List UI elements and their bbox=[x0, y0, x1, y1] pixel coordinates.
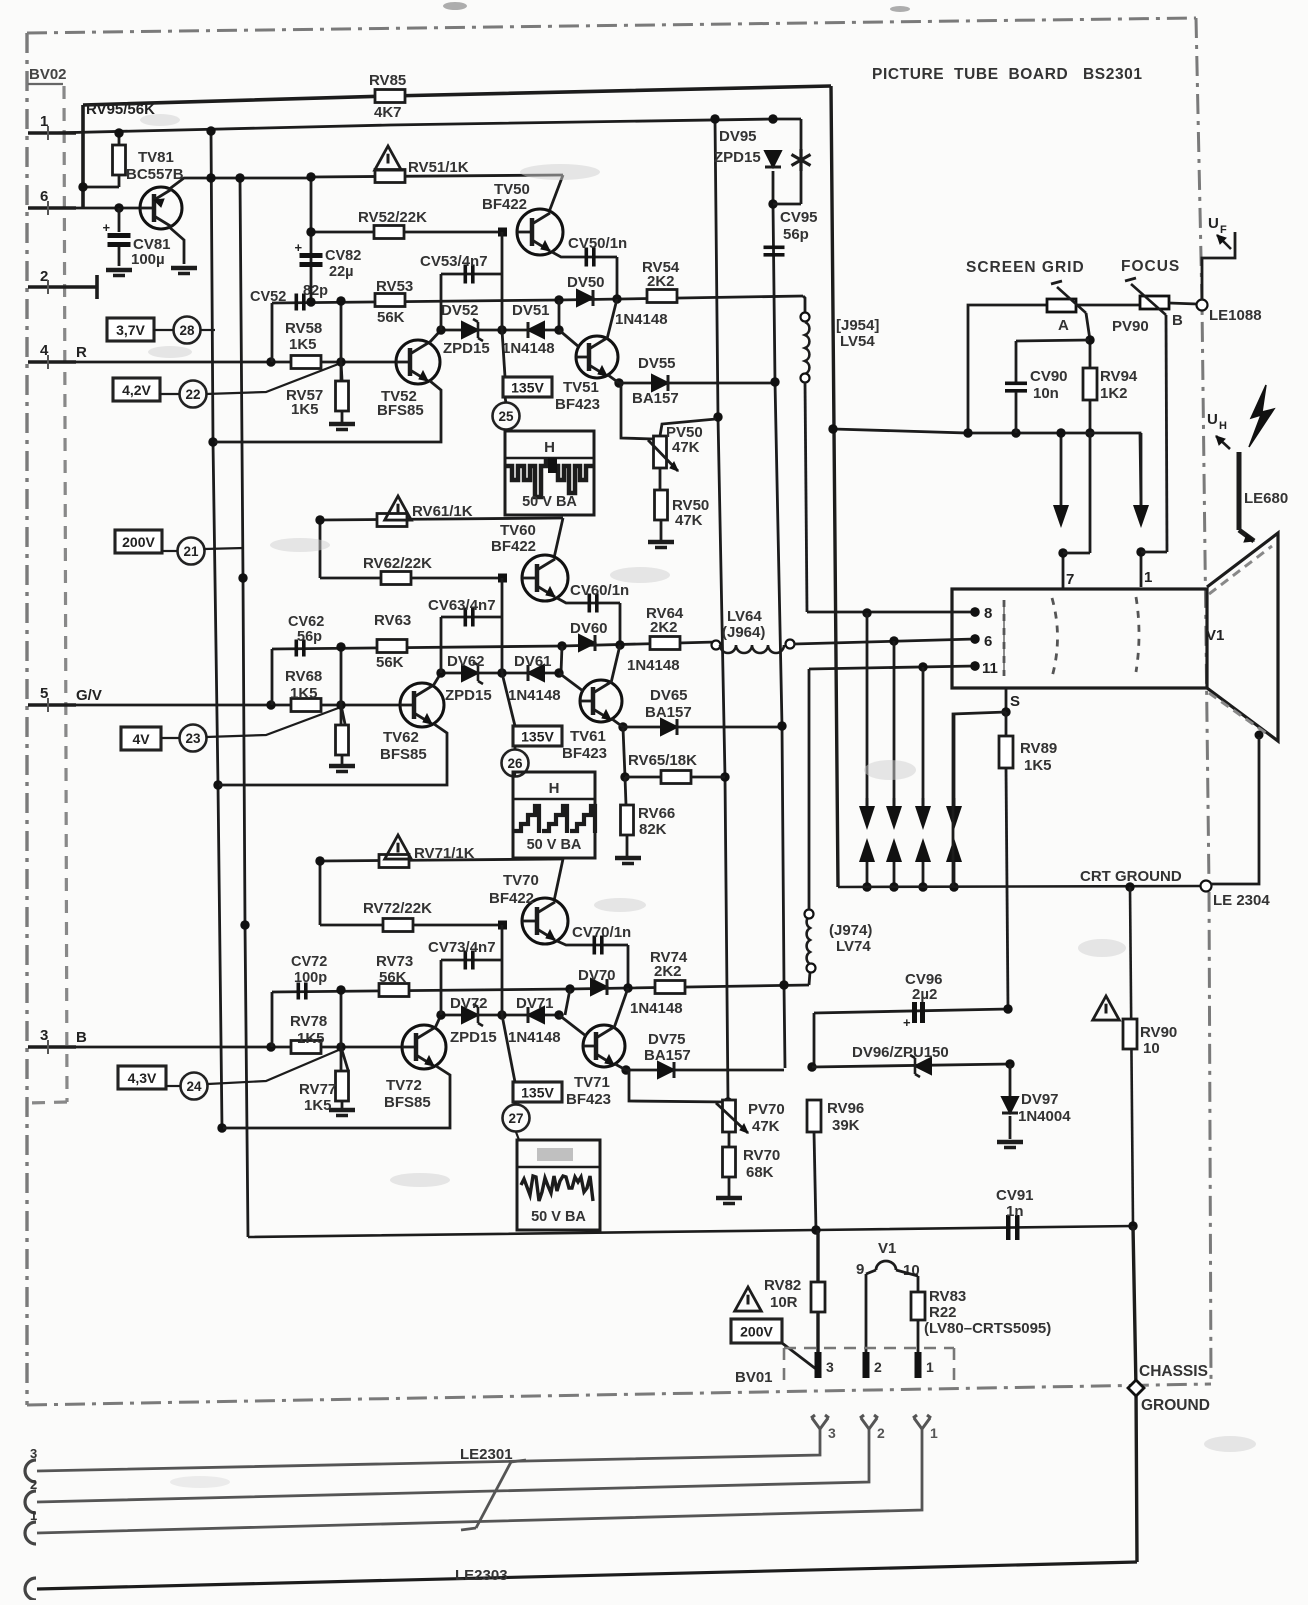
svg-text:PICTURE TUBE BOARD BS2301: PICTURE TUBE BOARD BS2301 bbox=[872, 66, 1143, 83]
svg-text:RV62/22K: RV62/22K bbox=[363, 555, 432, 572]
svg-text:DV51: DV51 bbox=[512, 302, 550, 319]
svg-text:LV64: LV64 bbox=[727, 608, 762, 625]
svg-text:200V: 200V bbox=[122, 534, 155, 550]
svg-text:DV52: DV52 bbox=[441, 302, 479, 319]
svg-text:56K: 56K bbox=[376, 654, 404, 671]
svg-text:56K: 56K bbox=[377, 309, 405, 326]
svg-text:39K: 39K bbox=[832, 1117, 860, 1134]
svg-text:2K2: 2K2 bbox=[650, 619, 678, 636]
svg-text:CV73/4n7: CV73/4n7 bbox=[428, 939, 496, 956]
svg-text:LE2301: LE2301 bbox=[460, 1446, 513, 1463]
svg-text:1N4148: 1N4148 bbox=[508, 687, 561, 704]
svg-text:CV90: CV90 bbox=[1030, 368, 1068, 385]
svg-text:RV94: RV94 bbox=[1100, 368, 1138, 385]
svg-text:S: S bbox=[1010, 693, 1020, 710]
svg-text:22: 22 bbox=[185, 387, 200, 402]
svg-text:3: 3 bbox=[826, 1359, 834, 1375]
svg-text:RV73: RV73 bbox=[376, 953, 413, 970]
svg-text:82K: 82K bbox=[639, 821, 667, 838]
svg-text:RV90: RV90 bbox=[1140, 1024, 1177, 1041]
svg-text:DV62: DV62 bbox=[447, 653, 485, 670]
svg-text:DV65: DV65 bbox=[650, 687, 688, 704]
svg-text:V1: V1 bbox=[1206, 627, 1224, 644]
svg-text:BA157: BA157 bbox=[644, 1047, 691, 1064]
svg-text:LV54: LV54 bbox=[840, 333, 875, 350]
svg-text:4K7: 4K7 bbox=[374, 104, 402, 121]
svg-text:RV68: RV68 bbox=[285, 668, 322, 685]
svg-text:B: B bbox=[76, 1029, 87, 1046]
svg-text:BV02: BV02 bbox=[29, 66, 67, 83]
svg-text:1N4148: 1N4148 bbox=[627, 657, 680, 674]
svg-text:RV96: RV96 bbox=[827, 1100, 864, 1117]
svg-text:RV83: RV83 bbox=[929, 1288, 966, 1305]
svg-text:10R: 10R bbox=[770, 1294, 798, 1311]
svg-text:RV65/18K: RV65/18K bbox=[628, 752, 697, 769]
svg-text:TV60: TV60 bbox=[500, 522, 536, 539]
svg-text:RV82: RV82 bbox=[764, 1277, 801, 1294]
svg-text:TV81: TV81 bbox=[138, 149, 174, 166]
svg-text:U: U bbox=[1207, 411, 1218, 428]
svg-text:2µ2: 2µ2 bbox=[912, 986, 937, 1003]
svg-text:ZPD15: ZPD15 bbox=[450, 1029, 497, 1046]
svg-text:DV95: DV95 bbox=[719, 128, 757, 145]
svg-text:RV51/1K: RV51/1K bbox=[408, 159, 469, 176]
svg-text:1: 1 bbox=[30, 1508, 37, 1523]
svg-text:135V: 135V bbox=[511, 380, 544, 396]
svg-text:RV52/22K: RV52/22K bbox=[358, 209, 427, 226]
svg-text:DV50: DV50 bbox=[567, 274, 605, 291]
svg-text:BA157: BA157 bbox=[645, 704, 692, 721]
svg-text:56K: 56K bbox=[379, 969, 407, 986]
svg-text:1: 1 bbox=[930, 1425, 938, 1441]
svg-text:RV85: RV85 bbox=[369, 72, 406, 89]
svg-text:4V: 4V bbox=[132, 731, 150, 747]
svg-text:BF422: BF422 bbox=[489, 890, 534, 907]
svg-text:47K: 47K bbox=[672, 439, 700, 456]
svg-text:25: 25 bbox=[498, 409, 514, 424]
svg-text:[J954]: [J954] bbox=[836, 317, 879, 334]
svg-text:CV60/1n: CV60/1n bbox=[570, 582, 629, 599]
svg-text:ZPD15: ZPD15 bbox=[445, 687, 492, 704]
svg-text:CV63/4n7: CV63/4n7 bbox=[428, 597, 496, 614]
svg-text:LE 2304: LE 2304 bbox=[1213, 892, 1270, 909]
svg-text:135V: 135V bbox=[521, 729, 554, 745]
svg-text:SCREEN GRID: SCREEN GRID bbox=[966, 259, 1085, 276]
svg-text:TV62: TV62 bbox=[383, 729, 419, 746]
svg-text:R22: R22 bbox=[929, 1304, 957, 1321]
svg-text:7: 7 bbox=[1066, 571, 1074, 588]
svg-text:1N4148: 1N4148 bbox=[508, 1029, 561, 1046]
svg-text:10: 10 bbox=[1143, 1040, 1160, 1057]
svg-text:CV52: CV52 bbox=[250, 289, 286, 305]
svg-text:2K2: 2K2 bbox=[647, 273, 675, 290]
svg-text:50 V BA: 50 V BA bbox=[522, 494, 577, 510]
svg-text:CV70/1n: CV70/1n bbox=[572, 924, 631, 941]
svg-text:28: 28 bbox=[179, 323, 195, 338]
svg-text:10n: 10n bbox=[1033, 385, 1059, 402]
svg-text:135V: 135V bbox=[521, 1085, 554, 1101]
svg-text:21: 21 bbox=[183, 544, 199, 559]
svg-text:100µ: 100µ bbox=[131, 251, 165, 268]
svg-text:TV70: TV70 bbox=[503, 872, 539, 889]
svg-text:1N4148: 1N4148 bbox=[630, 1000, 683, 1017]
svg-text:FOCUS: FOCUS bbox=[1121, 258, 1180, 275]
svg-text:BFS85: BFS85 bbox=[380, 746, 427, 763]
svg-text:GROUND: GROUND bbox=[1141, 1397, 1210, 1414]
svg-text:+: + bbox=[903, 1015, 911, 1030]
svg-text:H: H bbox=[544, 439, 555, 456]
svg-text:BC557B: BC557B bbox=[126, 166, 184, 183]
svg-text:1K5: 1K5 bbox=[291, 401, 319, 418]
svg-text:RV70: RV70 bbox=[743, 1147, 780, 1164]
svg-text:100p: 100p bbox=[294, 970, 327, 986]
svg-text:11: 11 bbox=[982, 660, 998, 677]
svg-text:CHASSIS: CHASSIS bbox=[1139, 1363, 1208, 1380]
svg-text:24: 24 bbox=[186, 1079, 202, 1094]
svg-text:4,2V: 4,2V bbox=[122, 382, 151, 398]
svg-text:CV72: CV72 bbox=[291, 954, 327, 970]
svg-text:LE2303: LE2303 bbox=[455, 1567, 508, 1584]
svg-text:1: 1 bbox=[1144, 569, 1152, 586]
svg-text:1N4148: 1N4148 bbox=[502, 340, 555, 357]
svg-text:BF422: BF422 bbox=[482, 196, 527, 213]
svg-text:1K5: 1K5 bbox=[289, 336, 317, 353]
svg-text:2: 2 bbox=[874, 1359, 882, 1375]
svg-text:BV01: BV01 bbox=[735, 1369, 773, 1386]
svg-text:6: 6 bbox=[984, 633, 992, 650]
svg-text:BF423: BF423 bbox=[562, 745, 607, 762]
svg-text:DV96/ZPU150: DV96/ZPU150 bbox=[852, 1044, 949, 1061]
svg-text:56p: 56p bbox=[297, 629, 322, 645]
svg-text:1K5: 1K5 bbox=[290, 685, 318, 702]
svg-text:4,3V: 4,3V bbox=[128, 1070, 157, 1086]
svg-text:200V: 200V bbox=[740, 1324, 773, 1340]
svg-text:9: 9 bbox=[856, 1261, 864, 1278]
svg-text:BF423: BF423 bbox=[566, 1091, 611, 1108]
svg-text:BF423: BF423 bbox=[555, 396, 600, 413]
svg-text:8: 8 bbox=[984, 605, 992, 622]
svg-text:BFS85: BFS85 bbox=[377, 402, 424, 419]
svg-text:BA157: BA157 bbox=[632, 390, 679, 407]
svg-text:1n: 1n bbox=[1006, 1203, 1024, 1220]
svg-text:LV74: LV74 bbox=[836, 938, 871, 955]
svg-text:RV63: RV63 bbox=[374, 612, 411, 629]
svg-text:1N4004: 1N4004 bbox=[1018, 1108, 1071, 1125]
svg-text:3: 3 bbox=[828, 1425, 836, 1441]
svg-text:R: R bbox=[76, 344, 87, 361]
svg-text:PV90: PV90 bbox=[1112, 318, 1149, 335]
svg-text:TV51: TV51 bbox=[563, 379, 599, 396]
svg-text:DV72: DV72 bbox=[450, 995, 488, 1012]
svg-text:1: 1 bbox=[926, 1359, 934, 1375]
svg-text:RV95/56K: RV95/56K bbox=[86, 101, 155, 118]
svg-text:23: 23 bbox=[185, 731, 201, 746]
svg-text:DV75: DV75 bbox=[648, 1031, 686, 1048]
svg-text:DV71: DV71 bbox=[516, 995, 554, 1012]
svg-text:A: A bbox=[1058, 317, 1069, 334]
svg-text:2: 2 bbox=[877, 1425, 885, 1441]
svg-text:2K2: 2K2 bbox=[654, 963, 682, 980]
svg-text:RV61/1K: RV61/1K bbox=[412, 503, 473, 520]
svg-text:+: + bbox=[295, 240, 303, 255]
svg-text:2: 2 bbox=[30, 1477, 37, 1492]
svg-text:(J964): (J964) bbox=[722, 624, 765, 641]
svg-text:BFS85: BFS85 bbox=[384, 1094, 431, 1111]
svg-text:CV95: CV95 bbox=[780, 209, 818, 226]
svg-text:22µ: 22µ bbox=[329, 264, 353, 280]
svg-text:LE680: LE680 bbox=[1244, 490, 1288, 507]
svg-text:TV61: TV61 bbox=[570, 728, 606, 745]
svg-text:+: + bbox=[103, 220, 111, 235]
svg-text:B: B bbox=[1172, 312, 1183, 329]
svg-text:68K: 68K bbox=[746, 1164, 774, 1181]
svg-text:DV97: DV97 bbox=[1021, 1091, 1059, 1108]
svg-text:26: 26 bbox=[507, 756, 523, 771]
svg-text:ZPD15: ZPD15 bbox=[714, 149, 761, 166]
svg-text:50 V BA: 50 V BA bbox=[531, 1209, 586, 1225]
svg-text:DV55: DV55 bbox=[638, 355, 676, 372]
svg-text:82p: 82p bbox=[303, 283, 328, 299]
svg-text:56p: 56p bbox=[783, 226, 809, 243]
svg-text:27: 27 bbox=[508, 1111, 523, 1126]
svg-text:LE1088: LE1088 bbox=[1209, 307, 1262, 324]
svg-text:RV58: RV58 bbox=[285, 320, 322, 337]
svg-text:TV71: TV71 bbox=[574, 1074, 610, 1091]
svg-text:RV71/1K: RV71/1K bbox=[414, 845, 475, 862]
svg-text:CV91: CV91 bbox=[996, 1187, 1034, 1204]
svg-text:DV60: DV60 bbox=[570, 620, 608, 637]
svg-text:(J974): (J974) bbox=[829, 922, 872, 939]
svg-text:RV78: RV78 bbox=[290, 1013, 327, 1030]
svg-text:3: 3 bbox=[30, 1446, 37, 1461]
svg-text:TV72: TV72 bbox=[386, 1077, 422, 1094]
svg-text:BF422: BF422 bbox=[491, 538, 536, 555]
svg-text:RV66: RV66 bbox=[638, 805, 675, 822]
svg-text:CV82: CV82 bbox=[325, 248, 361, 264]
svg-text:47K: 47K bbox=[675, 512, 703, 529]
svg-text:RV89: RV89 bbox=[1020, 740, 1057, 757]
svg-text:(LV80–CRTS5095): (LV80–CRTS5095) bbox=[924, 1320, 1051, 1337]
svg-text:H: H bbox=[1219, 420, 1227, 432]
svg-text:G/V: G/V bbox=[76, 687, 102, 704]
svg-text:U: U bbox=[1208, 215, 1219, 232]
svg-text:RV77: RV77 bbox=[299, 1081, 336, 1098]
svg-text:DV61: DV61 bbox=[514, 653, 552, 670]
svg-text:1N4148: 1N4148 bbox=[615, 311, 668, 328]
svg-text:CV50/1n: CV50/1n bbox=[568, 235, 627, 252]
svg-text:F: F bbox=[1220, 224, 1227, 236]
svg-text:1K2: 1K2 bbox=[1100, 385, 1128, 402]
svg-text:47K: 47K bbox=[752, 1118, 780, 1135]
svg-text:1K5: 1K5 bbox=[297, 1030, 325, 1047]
svg-text:RV53: RV53 bbox=[376, 278, 413, 295]
svg-text:V1: V1 bbox=[878, 1240, 896, 1257]
svg-text:CV53/4n7: CV53/4n7 bbox=[420, 253, 488, 270]
svg-text:H: H bbox=[549, 780, 560, 797]
svg-text:ZPD15: ZPD15 bbox=[443, 340, 490, 357]
svg-text:3,7V: 3,7V bbox=[116, 322, 145, 338]
svg-text:CV62: CV62 bbox=[288, 614, 324, 630]
svg-text:DV70: DV70 bbox=[578, 967, 616, 984]
svg-text:RV72/22K: RV72/22K bbox=[363, 900, 432, 917]
svg-text:1K5: 1K5 bbox=[1024, 757, 1052, 774]
svg-text:PV70: PV70 bbox=[748, 1101, 785, 1118]
svg-text:50 V BA: 50 V BA bbox=[527, 837, 582, 853]
svg-text:1K5: 1K5 bbox=[304, 1097, 332, 1114]
